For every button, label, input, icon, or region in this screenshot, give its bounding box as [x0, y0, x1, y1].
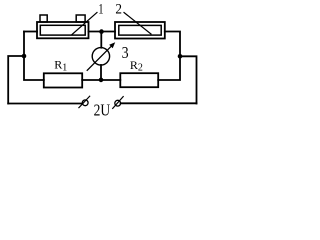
svg-text:1: 1: [98, 2, 103, 18]
svg-text:3: 3: [122, 43, 129, 62]
svg-text:R2: R2: [130, 58, 143, 74]
svg-text:2: 2: [115, 2, 122, 18]
svg-text:R1: R1: [54, 58, 67, 74]
svg-text:2U: 2U: [94, 101, 111, 120]
